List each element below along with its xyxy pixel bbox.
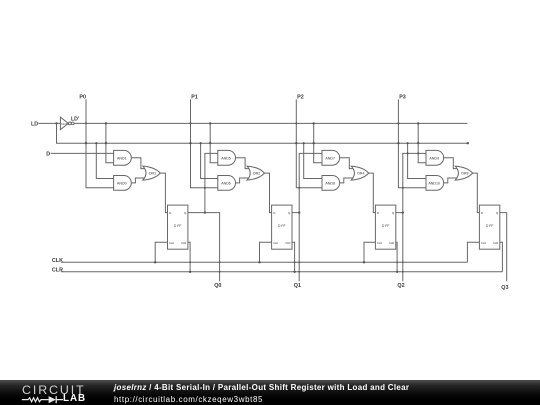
wire P2 vertical to AND8 input xyxy=(296,99,322,187)
svg-text:AND8: AND8 xyxy=(325,181,335,185)
AND gate AND6 xyxy=(218,176,236,191)
wire Q2 output from flip-flop xyxy=(396,213,403,282)
OR gate OR2 xyxy=(247,166,265,180)
AND gate AND7 xyxy=(322,150,340,165)
svg-text:D: D xyxy=(273,211,276,215)
svg-text:Q2: Q2 xyxy=(397,283,404,289)
wire LD tap to AND6 input xyxy=(201,143,218,178)
wire OR4 output to flip-flop D input xyxy=(369,173,376,213)
junction CLR wire at CLK bus crossing xyxy=(189,261,191,263)
D flip-flop DFF2 xyxy=(272,205,292,249)
svg-text:AND6: AND6 xyxy=(221,181,231,185)
OR gate OR4 xyxy=(351,166,369,180)
wire flip-flop CLR to CLR bus xyxy=(292,242,295,271)
wire AND10 output to OR8 xyxy=(444,178,458,183)
svg-text:OR4: OR4 xyxy=(357,172,364,176)
svg-text:Q: Q xyxy=(496,211,499,215)
svg-text:OR8: OR8 xyxy=(461,172,468,176)
svg-text:OR2: OR2 xyxy=(253,172,260,176)
svg-text:D: D xyxy=(169,211,172,215)
svg-text:Q1: Q1 xyxy=(294,283,301,289)
svg-text:CLK: CLK xyxy=(377,241,382,245)
junction P3 at LD' bus xyxy=(397,122,399,124)
junction Q0 riser takeoff xyxy=(204,211,206,213)
svg-text:LD’: LD’ xyxy=(71,116,80,122)
junction CLR connection xyxy=(189,271,191,273)
svg-text:CLR: CLR xyxy=(285,241,290,245)
svg-text:AND5: AND5 xyxy=(221,156,231,160)
junction CLR connection xyxy=(396,271,398,273)
wire flip-flop CLK to CLK bus xyxy=(260,242,272,262)
wire AND5 output to OR2 xyxy=(236,158,250,169)
wire LD tap to AND0 input xyxy=(96,143,113,178)
wire P0 vertical to AND0 input xyxy=(86,99,114,187)
footer url text xyxy=(114,395,263,404)
wire flip-flop CLK to CLK bus xyxy=(364,242,375,262)
wire LD input xyxy=(38,122,60,124)
wire AND8 output to OR4 xyxy=(340,178,354,183)
junction Q0 at CLR bus crossing xyxy=(219,271,221,273)
D flip-flop DFF4 xyxy=(479,205,499,249)
junction LD tap xyxy=(200,142,202,144)
svg-text:P0: P0 xyxy=(79,95,86,101)
wire flip-flop CLK to CLK bus xyxy=(467,242,479,262)
svg-text:AND1: AND1 xyxy=(117,156,127,160)
junction LD' tap at LD bus xyxy=(209,142,211,144)
wire Q0 output from flip-flop xyxy=(188,213,220,282)
svg-text:CLK: CLK xyxy=(169,241,174,245)
svg-text:D: D xyxy=(377,211,380,215)
svg-text:CLK: CLK xyxy=(52,258,63,264)
wire AND9 output to OR8 xyxy=(444,158,458,169)
svg-text:D: D xyxy=(481,211,484,215)
svg-text:D FF: D FF xyxy=(486,224,494,228)
D flip-flop DFF1 xyxy=(168,205,188,249)
wire AND0 output to OR1 xyxy=(131,178,145,183)
junction Q1 at CLK bus crossing xyxy=(298,261,300,263)
wire LD' tap to AND7 input xyxy=(314,123,322,162)
svg-text:D FF: D FF xyxy=(174,224,182,228)
wire flip-flop CLR to CLR bus xyxy=(188,242,190,271)
junction LD' tap at LD' bus xyxy=(313,122,315,124)
junction Q2 at CLK bus crossing xyxy=(402,261,404,263)
CircuitLab logo CIRCUIT word xyxy=(22,384,86,396)
wire Q1 riser to AND7 input xyxy=(299,153,322,212)
D flip-flop DFF3 xyxy=(375,205,395,249)
wire OR8 output to flip-flop D input xyxy=(473,173,480,213)
junction riser at P1 wire xyxy=(204,187,206,189)
junction LD tee xyxy=(55,122,57,124)
AND gate AND10 xyxy=(426,176,444,191)
wire LD' tap to AND9 input xyxy=(418,123,426,162)
svg-text:Q: Q xyxy=(184,211,187,215)
svg-text:AND0: AND0 xyxy=(117,181,127,185)
junction CLK connection xyxy=(363,261,365,263)
svg-text:Q3: Q3 xyxy=(501,285,508,291)
svg-text:AND7: AND7 xyxy=(325,156,335,160)
svg-text:CLR: CLR xyxy=(389,241,394,245)
node LD' terminal circle xyxy=(72,122,75,125)
wire OR2 output to flip-flop D input xyxy=(265,173,272,213)
junction LD tap xyxy=(407,142,409,144)
junction P1 at LD bus xyxy=(189,142,191,144)
wire AND6 output to OR2 xyxy=(236,178,250,183)
wire CLK bus xyxy=(61,261,467,263)
junction riser line at LD' tap xyxy=(417,152,419,154)
CircuitLab logo LAB word xyxy=(63,394,86,404)
svg-text:CLR: CLR xyxy=(493,241,498,245)
junction riser at P2 wire xyxy=(298,187,300,189)
junction P0 at LD bus xyxy=(85,142,87,144)
junction LD' tap at LD bus xyxy=(417,142,419,144)
junction CLR connection xyxy=(293,271,295,273)
svg-text:D FF: D FF xyxy=(278,224,286,228)
junction LD' tap at LD' bus xyxy=(417,122,419,124)
junction LD tap xyxy=(303,142,305,144)
svg-text:CLR: CLR xyxy=(181,241,186,245)
junction CLR wire at CLK bus crossing xyxy=(396,261,398,263)
wire P1 vertical to AND6 input xyxy=(191,99,218,187)
svg-text:OR1: OR1 xyxy=(149,172,156,176)
OR gate OR8 xyxy=(455,166,473,180)
AND gate AND0 xyxy=(114,176,132,191)
junction riser at P3 wire xyxy=(402,187,404,189)
junction LD' tap at LD bus xyxy=(105,142,107,144)
junction P0 at LD' bus xyxy=(85,122,87,124)
wire LD' tap to AND1 input xyxy=(106,123,114,162)
wire flip-flop CLR to CLR bus xyxy=(500,242,503,271)
junction CLK connection xyxy=(154,261,156,263)
junction LD' tap at LD' bus xyxy=(105,122,107,124)
junction Q1 at CLR bus crossing xyxy=(298,271,300,273)
svg-text:P2: P2 xyxy=(297,95,304,101)
svg-text:D: D xyxy=(46,152,50,158)
svg-text:AND9: AND9 xyxy=(429,156,439,160)
AND gate AND8 xyxy=(322,176,340,191)
wire LD' tap to AND5 input xyxy=(210,123,218,162)
svg-text:LD: LD xyxy=(31,122,38,128)
wire P3 vertical to AND10 input xyxy=(398,99,426,187)
svg-text:P1: P1 xyxy=(191,95,198,101)
OR gate OR1 xyxy=(143,166,161,180)
svg-text:Q: Q xyxy=(288,211,291,215)
svg-text:P3: P3 xyxy=(399,95,406,101)
junction Q2 at CLR bus crossing xyxy=(402,271,404,273)
wire flip-flop CLR to CLR bus xyxy=(396,242,397,271)
svg-text:AND10: AND10 xyxy=(428,181,440,185)
junction P2 at LD bus xyxy=(295,142,297,144)
wire Q1 output from flip-flop xyxy=(292,213,299,282)
svg-text:CLK: CLK xyxy=(481,241,486,245)
junction P2 at LD' bus xyxy=(295,122,297,124)
junction CLK connection xyxy=(258,261,260,263)
svg-text:Q0: Q0 xyxy=(214,283,221,289)
AND gate AND1 xyxy=(114,150,132,165)
wire D input line xyxy=(51,152,114,154)
wire AND7 output to OR4 xyxy=(340,158,354,169)
inverter NOT1 xyxy=(60,117,68,129)
wire LD tap to AND8 input xyxy=(304,143,322,178)
svg-text:D FF: D FF xyxy=(382,224,390,228)
junction LD bus end xyxy=(467,142,469,144)
AND gate AND9 xyxy=(426,150,444,165)
junction riser line at LD tap xyxy=(407,152,409,154)
svg-text:CLR: CLR xyxy=(52,268,63,274)
wire OR1 output to flip-flop D input xyxy=(160,173,167,213)
svg-text:CLK: CLK xyxy=(273,241,278,245)
junction P3 at LD bus xyxy=(397,142,399,144)
wire LD tap to AND10 input xyxy=(408,143,426,178)
wire LD' bus xyxy=(74,122,467,124)
junction Q0 at CLK bus crossing xyxy=(219,261,221,263)
svg-text:Q: Q xyxy=(392,211,395,215)
wire LD bus (LD net: tee down then across) xyxy=(57,123,468,143)
inverter NOT1 output bubble xyxy=(69,122,72,125)
wire flip-flop CLK to CLK bus xyxy=(155,242,167,262)
junction Q1 riser takeoff xyxy=(298,211,300,213)
junction LD tap xyxy=(95,142,97,144)
junction Q2 riser takeoff xyxy=(402,211,404,213)
wire Q3 output from flip-flop xyxy=(500,213,507,282)
wire Q0 riser to AND5 input xyxy=(205,153,218,212)
junction LD' tap at LD bus xyxy=(313,142,315,144)
wire Q2 riser to AND9 input xyxy=(403,153,426,212)
junction P1 at LD' bus xyxy=(190,122,192,124)
CircuitLab logo resistor and diode symbol xyxy=(12,394,72,405)
junction CLR wire at CLK bus crossing xyxy=(294,261,296,263)
footer title text xyxy=(114,383,409,392)
junction LD' tap at LD' bus xyxy=(209,122,211,124)
AND gate AND5 xyxy=(218,150,236,165)
footer bar xyxy=(0,380,540,405)
wire AND1 output to OR1 xyxy=(131,158,145,169)
wire CLR bus xyxy=(61,271,502,273)
